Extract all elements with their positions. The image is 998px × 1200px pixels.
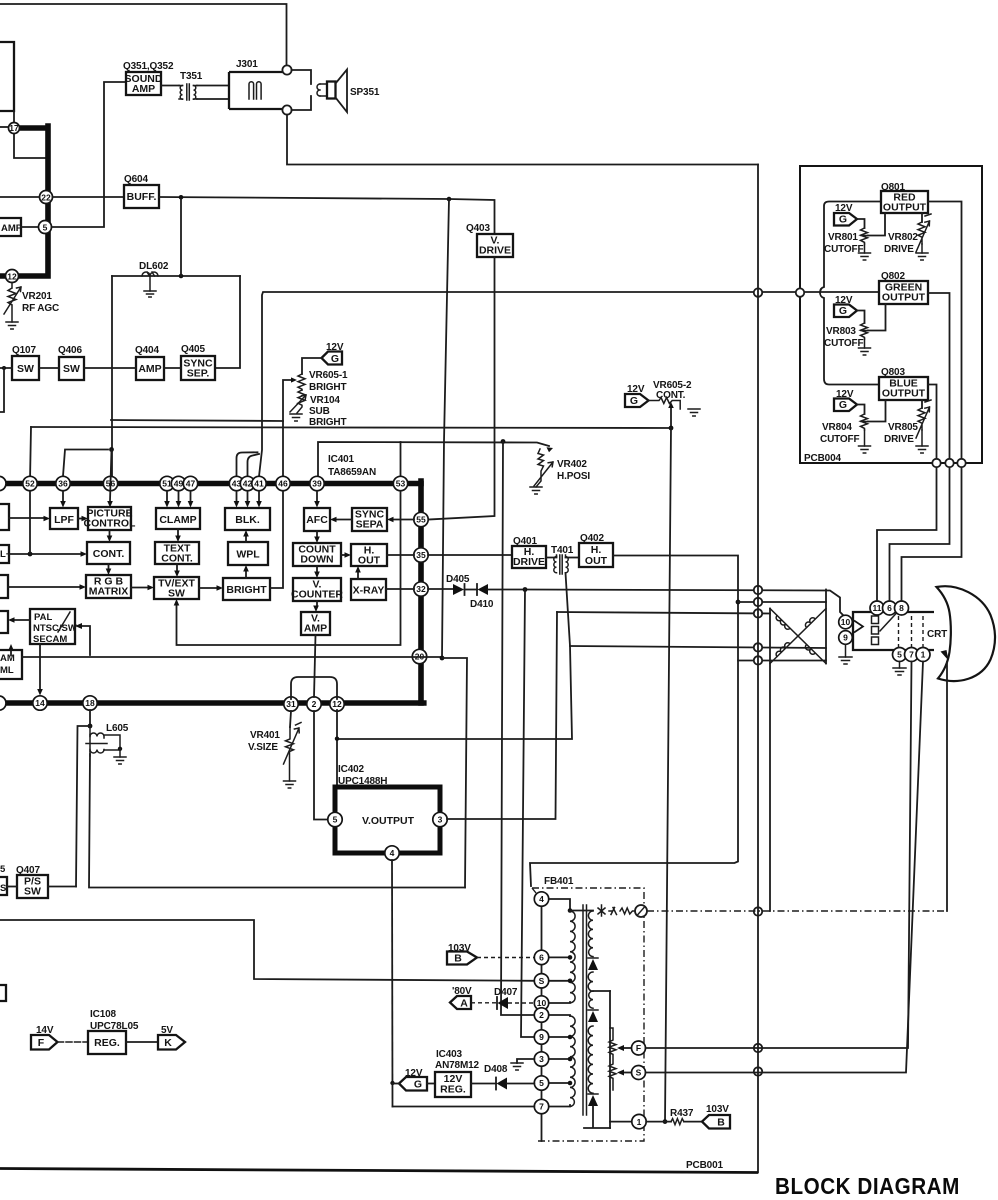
svg-text:VR402: VR402 <box>557 459 587 470</box>
CRT heater triangle <box>854 621 863 633</box>
wire red output to CRT pin8 <box>902 202 962 602</box>
pot VR401 v-size <box>286 727 294 781</box>
svg-text:OUT: OUT <box>585 555 608 567</box>
svg-text:46: 46 <box>278 479 288 489</box>
ground VR605-2 <box>688 409 700 416</box>
wire reg to D408 <box>471 1083 496 1085</box>
ground L605 <box>114 757 126 764</box>
pin 51 <box>160 476 174 490</box>
ground VR201 <box>6 322 18 329</box>
picture control box <box>88 507 131 530</box>
svg-text:S: S <box>636 1068 642 1078</box>
svg-text:D405: D405 <box>446 574 470 585</box>
box fragment left 1 <box>0 504 9 530</box>
IC401 top bus <box>0 481 421 487</box>
wire left edge to node 22 <box>0 196 40 198</box>
svg-text:AMP: AMP <box>304 623 327 635</box>
ground DL602 <box>144 291 156 297</box>
pin 10 <box>839 615 853 629</box>
pin 4 FB <box>534 892 548 906</box>
box fragment left 5 <box>0 650 22 679</box>
svg-text:10: 10 <box>537 998 547 1008</box>
pin 36 <box>56 476 70 490</box>
pin 55 <box>414 512 428 526</box>
EHT damping resistor <box>620 908 634 914</box>
svg-text:SEPA: SEPA <box>356 519 384 531</box>
wire pin20 line inner <box>22 656 442 658</box>
flag G 12V bright (points left) <box>322 352 343 365</box>
wire D410 to CRT heater <box>488 590 845 617</box>
wire pin2 to secondary top <box>549 1015 570 1016</box>
junction heater/FB pin9 branch <box>523 587 528 592</box>
svg-text:1: 1 <box>637 1117 642 1127</box>
pin F <box>632 1041 646 1055</box>
svg-text:3: 3 <box>438 815 443 825</box>
wire top rail to jack J301 <box>0 4 287 65</box>
SECTION: audio/top-left <box>0 4 758 520</box>
svg-text:K: K <box>164 1037 172 1049</box>
wire v amp to pin2 <box>314 635 316 697</box>
svg-text:CONT.: CONT. <box>93 548 125 560</box>
junction h-pulse yoke tap <box>736 600 741 605</box>
svg-text:G: G <box>839 214 847 226</box>
tv/ext sw box <box>154 577 199 599</box>
pin 6 FB <box>534 950 548 964</box>
junction pin6 tap <box>568 955 573 960</box>
box fragment left P/S <box>0 877 7 895</box>
regulator IC403 box <box>435 1072 471 1097</box>
svg-text:L·: L· <box>0 549 9 560</box>
ground VR402 <box>530 487 542 494</box>
svg-text:OUTPUT: OUTPUT <box>883 202 927 214</box>
wire pin1 to R437 <box>646 1121 671 1123</box>
wire flag B to pin6 <box>477 957 534 959</box>
svg-text:BRIGHT: BRIGHT <box>309 382 346 393</box>
wire RGB input riser to red <box>820 202 881 293</box>
svg-text:AFC: AFC <box>306 514 328 526</box>
wire pin3 to ground <box>517 1059 534 1063</box>
CRT neck <box>853 612 934 650</box>
h out box <box>351 544 387 566</box>
svg-text:B: B <box>717 1117 725 1129</box>
svg-text:55: 55 <box>416 515 426 525</box>
diode D408 <box>495 1078 497 1090</box>
pin 14 <box>33 696 47 710</box>
svg-text:AMP: AMP <box>138 363 161 375</box>
svg-text:TA8659AN: TA8659AN <box>328 467 376 478</box>
box fragment left 2 <box>0 545 9 563</box>
wire yoke line lower2 <box>738 660 826 662</box>
svg-text:IC401: IC401 <box>328 454 355 465</box>
wire pin51 to clamp <box>166 491 168 501</box>
wire S to CRT pin1 <box>646 662 924 1073</box>
wire blue output to CRT pin11 <box>877 385 937 602</box>
junction pin9 tap <box>568 1035 573 1040</box>
wire pin36 to DL net <box>63 450 108 477</box>
wire yoke line lower1 <box>570 646 826 648</box>
transistor Q403 V drive box <box>477 234 513 257</box>
svg-text:Q406: Q406 <box>58 345 82 356</box>
wire HV right rail <box>609 991 611 1128</box>
sound amp Q351/Q352 box <box>126 72 161 95</box>
svg-text:S: S <box>539 976 545 986</box>
wire pin9 tap <box>549 1036 570 1038</box>
svg-text:VR804: VR804 <box>822 422 852 433</box>
svg-text:Q404: Q404 <box>135 345 159 356</box>
transformer T401 <box>546 557 557 558</box>
wire VR801 wiper to red output <box>868 213 885 236</box>
PCB001 rail crossing circles <box>754 288 762 296</box>
switch Q407 p/s box <box>17 875 48 898</box>
wire VR605-1 wiper from pin46 riser <box>283 380 293 476</box>
flyback core <box>583 905 587 1115</box>
node 22 <box>40 191 53 204</box>
svg-text:11: 11 <box>873 603 882 613</box>
pal ntsc secam box <box>30 609 75 644</box>
svg-text:47: 47 <box>186 479 196 489</box>
svg-text:52: 52 <box>25 479 35 489</box>
FB401 dash-dot boundary <box>532 888 644 1141</box>
flag B 103V <box>447 952 477 965</box>
svg-text:BLOCK DIAGRAM: BLOCK DIAGRAM <box>775 1173 960 1200</box>
wire pin12 riser below <box>336 710 338 787</box>
wire AMP box to node 5 <box>21 226 38 228</box>
wire pin35 to Q401 <box>428 554 512 556</box>
ground VR401 <box>284 781 296 788</box>
pin 18 <box>83 696 97 710</box>
svg-text:4: 4 <box>539 894 544 904</box>
svg-text:G: G <box>331 353 339 365</box>
pot VR802 drive <box>916 214 931 252</box>
diode D407 <box>496 997 498 1009</box>
svg-text:Q405: Q405 <box>181 344 205 355</box>
svg-text:S: S <box>0 883 6 894</box>
wire flag to VR803 <box>857 311 865 324</box>
wire HV bottom loop <box>584 1106 610 1128</box>
HV rectifier diode 3 <box>588 1093 598 1095</box>
svg-text:7: 7 <box>909 650 914 660</box>
transistor Q402 h-out box <box>579 543 613 567</box>
svg-text:IC403: IC403 <box>436 1049 463 1060</box>
wire DL602 to sync sep riser <box>215 276 240 368</box>
svg-text:Q403: Q403 <box>466 223 490 234</box>
svg-text:Q604: Q604 <box>124 174 148 185</box>
diode D410 <box>478 584 489 595</box>
PCB001 bottom border <box>0 1169 758 1173</box>
wire pin42 to blk <box>247 491 249 501</box>
svg-text:1: 1 <box>921 650 926 660</box>
wire Q407 output <box>48 886 76 888</box>
junction buffer/DL602 <box>179 195 184 200</box>
svg-text:J301: J301 <box>236 59 258 70</box>
ground VR104 <box>290 414 302 421</box>
wire pin53 stub to top wire <box>400 442 402 481</box>
junction primary top <box>568 908 573 913</box>
svg-text:3: 3 <box>539 1054 544 1064</box>
flag F 14V <box>31 1035 58 1050</box>
wire pin42 hook <box>248 454 260 477</box>
svg-text:F: F <box>636 1043 641 1053</box>
PCB001 right border <box>757 165 759 1173</box>
junction pin3 tap <box>568 1057 573 1062</box>
variable resistor VR201 <box>8 283 16 323</box>
wire h out to pin35 <box>387 554 414 556</box>
pin 52 <box>23 476 37 490</box>
wire staircase to FB pin S <box>0 920 534 981</box>
svg-text:VR104: VR104 <box>310 395 340 406</box>
pin 42 <box>240 476 254 490</box>
svg-text:G: G <box>839 305 847 317</box>
wire FB pin9 net riser <box>521 590 534 1038</box>
pin 4 IC402 <box>385 846 399 860</box>
wire T401 bottom to pin12 jog <box>337 573 572 739</box>
svg-text:4: 4 <box>390 848 395 858</box>
pin 32 <box>414 582 428 596</box>
blue output Q803 box <box>879 377 928 400</box>
wire VR804 ground stub <box>864 430 866 446</box>
pin 9 FB <box>534 1030 548 1044</box>
pin 3 FB <box>534 1052 548 1066</box>
flag G 12V green <box>834 305 857 318</box>
wire left edge elbow <box>0 368 4 412</box>
svg-text:REG.: REG. <box>94 1037 120 1049</box>
junction VR402 line <box>501 439 506 444</box>
svg-text:5: 5 <box>897 650 902 660</box>
wire RGB feed line pin41 to PCB004 <box>259 292 879 476</box>
partial IF box at left edge <box>0 42 14 111</box>
wire buffer output to Q403 <box>159 197 495 234</box>
wire DL602 line <box>112 275 240 277</box>
svg-text:B: B <box>454 953 462 965</box>
PCB004 border <box>800 166 982 463</box>
pin fragment left top <box>0 476 6 490</box>
svg-text:CRT: CRT <box>927 629 947 640</box>
junction left edge <box>2 366 6 370</box>
sync sepa box <box>352 508 387 531</box>
wire pin52 inner riser <box>29 491 31 554</box>
wire pin52 riser <box>30 427 31 481</box>
ground VR802 <box>916 253 928 260</box>
wire Q402 output to flyback feed <box>530 556 738 887</box>
wire h-yoke top line <box>738 601 826 603</box>
wire clamp to text cont <box>177 529 179 536</box>
wire pin36 to LPF <box>62 491 64 501</box>
wire HV tap to right rail <box>593 990 610 992</box>
ground VR803 <box>859 348 871 355</box>
pin 49 <box>171 476 185 490</box>
junction L605 ground tap <box>118 747 122 751</box>
SECTION: horiz/yoke/CRT <box>335 199 995 1124</box>
switch Q107 box <box>12 356 39 380</box>
svg-text:BRIGHT: BRIGHT <box>309 417 346 428</box>
svg-text:2: 2 <box>539 1010 544 1020</box>
flag G 12V cont (points right) <box>625 394 649 407</box>
svg-text:ML: ML <box>0 665 14 676</box>
wire VR802 ground stub <box>921 244 923 253</box>
junction pin52/cont <box>28 552 33 557</box>
jack contact node bottom <box>282 105 291 114</box>
svg-text:AM: AM <box>0 653 15 664</box>
svg-text:7: 7 <box>539 1102 544 1112</box>
wire F to CRT pin7 <box>646 662 912 1049</box>
pot VR803 cutoff <box>861 323 869 339</box>
HV winding section 2 <box>588 972 593 1008</box>
pin 56 <box>103 476 117 490</box>
cont box <box>87 542 130 564</box>
wire pin4-net to flag G <box>393 1083 400 1085</box>
svg-text:V.OUTPUT: V.OUTPUT <box>362 815 415 827</box>
wire pin6 tap <box>549 956 570 958</box>
jack J301 <box>229 72 287 109</box>
wire Q107 row interconnect <box>0 367 181 369</box>
pin 6 <box>883 601 897 615</box>
svg-text:9: 9 <box>539 1032 544 1042</box>
pot VR805 drive <box>916 400 931 438</box>
svg-text:8: 8 <box>899 603 904 613</box>
wire pin43 hook <box>237 452 258 477</box>
svg-text:SECAM: SECAM <box>33 634 67 645</box>
pin S-screen <box>632 1066 646 1080</box>
svg-text:D408: D408 <box>484 1064 508 1075</box>
wire F arrow <box>623 1047 632 1049</box>
CRT anode arrow <box>941 650 949 661</box>
sync separator Q405 box <box>181 356 215 380</box>
FB401 pin chain <box>541 893 543 1141</box>
wire pin49 to clamp <box>178 491 180 501</box>
wire S arrow <box>623 1072 632 1074</box>
wire green output to CRT pin6 <box>890 293 950 601</box>
pin 9 <box>839 631 853 645</box>
HV rectifier diode 2 <box>588 1009 598 1011</box>
junction pin4 line at G flag <box>390 1081 394 1085</box>
svg-text:VR605-1: VR605-1 <box>309 370 348 381</box>
svg-text:REG.: REG. <box>440 1084 466 1096</box>
dashed grid electrodes <box>899 616 924 649</box>
wire buffer riser down to pin20 line <box>442 199 449 658</box>
wire yoke right leg <box>825 590 827 664</box>
svg-text:DOWN: DOWN <box>300 554 333 566</box>
wire pin47 to clamp <box>190 491 192 501</box>
svg-text:OUTPUT: OUTPUT <box>882 388 926 400</box>
svg-text:Q107: Q107 <box>12 345 36 356</box>
flag G 12V red <box>834 213 857 226</box>
wire v-yoke line from IC402 <box>557 612 770 614</box>
wire pin5 ground stub <box>899 662 901 669</box>
flyback primary winding <box>570 911 575 1003</box>
wire pin7 line <box>393 1106 535 1108</box>
svg-text:VR802: VR802 <box>888 232 918 243</box>
IC402 v-output box <box>335 787 440 853</box>
wire count down to h out <box>341 554 345 556</box>
pin 2 FB <box>534 1008 548 1022</box>
wire afc to count down <box>316 531 318 537</box>
svg-text:BUFF.: BUFF. <box>127 191 157 203</box>
svg-text:9: 9 <box>843 633 848 643</box>
wire pal to fragment5 <box>10 650 12 656</box>
wire v counter to v amp <box>316 601 318 606</box>
svg-text:T351: T351 <box>180 71 203 82</box>
svg-text:CONTROL: CONTROL <box>84 518 136 530</box>
junction pin12 riser <box>335 737 339 741</box>
pot VR605-2 <box>649 398 681 410</box>
wire pin43 to blk <box>236 491 238 501</box>
wire x-ray to h out <box>357 573 359 580</box>
svg-text:COUNTER: COUNTER <box>291 589 343 601</box>
flag K 5V <box>158 1035 185 1050</box>
svg-text:5: 5 <box>43 222 48 232</box>
wire regulator to flag K <box>126 1041 158 1043</box>
CRT gun diagonal <box>880 613 897 632</box>
pin 2 <box>307 697 321 711</box>
wire EHT to anode <box>946 662 948 911</box>
flag G 12V blue <box>834 399 857 412</box>
ground CRT pin5 <box>893 668 906 675</box>
wire LPF to picture control <box>78 518 82 520</box>
EHT cap on boundary <box>635 905 647 917</box>
svg-text:53: 53 <box>396 479 406 489</box>
regulator IC108 box <box>88 1031 126 1054</box>
wire link primary to HV <box>570 910 593 912</box>
wire pin20 net to L605 drop <box>442 658 467 888</box>
wire pin3 tap <box>549 1058 570 1060</box>
svg-text:36: 36 <box>58 479 68 489</box>
partial AMP box at left edge <box>0 218 21 236</box>
svg-text:AMP: AMP <box>132 83 155 95</box>
svg-text:AN78M12: AN78M12 <box>435 1060 480 1071</box>
buffer Q604 box <box>124 185 159 208</box>
wire fragment1 to LPF <box>9 517 44 519</box>
svg-text:18: 18 <box>85 698 95 708</box>
svg-text:VR201: VR201 <box>22 291 52 302</box>
junction L605 <box>88 724 93 729</box>
svg-text:CUTOFF: CUTOFF <box>824 244 864 255</box>
svg-text:V.SIZE: V.SIZE <box>248 742 278 753</box>
svg-text:BRIGHT: BRIGHT <box>226 584 267 596</box>
svg-text:32: 32 <box>416 584 426 594</box>
ground CRT heater <box>839 657 852 664</box>
svg-text:DRIVE: DRIVE <box>479 245 511 257</box>
wire pin10 to primary bottom <box>549 1002 570 1003</box>
svg-text:12: 12 <box>332 699 342 709</box>
wire node 22 to buffer <box>53 196 125 198</box>
svg-text:CUTOFF: CUTOFF <box>824 338 864 349</box>
spark gap 2 <box>609 908 617 915</box>
svg-text:DRIVE: DRIVE <box>884 244 914 255</box>
pin fragment left bottom <box>0 696 6 710</box>
svg-text:SUB: SUB <box>309 406 330 417</box>
wire RGB matrix to tv/ext <box>131 587 148 589</box>
wire left edge to node 17 <box>0 126 9 128</box>
svg-text:G: G <box>630 395 638 407</box>
flag A 80V <box>450 996 471 1009</box>
diode D405 <box>453 584 464 595</box>
HV winding section 1 <box>588 911 593 957</box>
SECTION: PCB004 RGB <box>796 166 982 601</box>
svg-text:12: 12 <box>7 271 17 281</box>
pin 7 <box>905 648 919 662</box>
pin 11 <box>870 601 884 615</box>
svg-text:PAL: PAL <box>34 612 52 623</box>
wire pin55 to sync sepa <box>393 519 414 521</box>
svg-text:41: 41 <box>254 479 264 489</box>
svg-text:LPF: LPF <box>54 514 74 526</box>
wire pin41 to blk <box>258 491 260 501</box>
svg-text:SEP.: SEP. <box>187 368 210 380</box>
wire flag to VR801 <box>857 219 865 228</box>
transistor Q401 h-drive box <box>512 546 546 568</box>
svg-text:OUTPUT: OUTPUT <box>882 292 926 304</box>
wire wpl to blk <box>245 537 247 543</box>
